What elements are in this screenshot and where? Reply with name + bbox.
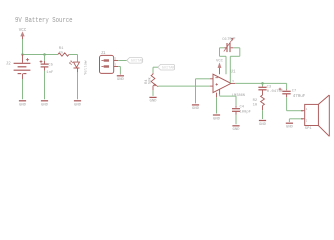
svg-text:C3: C3: [267, 85, 272, 89]
svg-text:100pF: 100pF: [240, 110, 252, 114]
svg-text:5: 5: [232, 80, 234, 83]
svg-text:C7: C7: [292, 89, 296, 93]
svg-text:10: 10: [253, 104, 258, 108]
svg-text:1nF: 1nF: [46, 71, 54, 75]
svg-text:GND: GND: [259, 123, 267, 127]
svg-text:R2: R2: [253, 99, 258, 103]
svg-text:GND: GND: [232, 128, 240, 132]
svg-text:2: 2: [306, 120, 308, 123]
svg-text:GND: GND: [117, 78, 125, 82]
svg-text:GND: GND: [19, 103, 27, 107]
svg-text:9V Battery Source: 9V Battery Source: [15, 17, 73, 25]
svg-text:U1: U1: [231, 71, 237, 75]
svg-text:Yellow: Yellow: [84, 60, 89, 75]
svg-text:1k: 1k: [59, 50, 64, 55]
svg-text:GND: GND: [213, 117, 221, 121]
svg-text:C6: C6: [222, 38, 226, 42]
svg-text:SP1: SP1: [305, 127, 313, 131]
svg-text:J2: J2: [6, 63, 11, 67]
svg-text:C4: C4: [240, 105, 245, 109]
svg-text:470uF: 470uF: [293, 95, 306, 99]
svg-text:GND: GND: [74, 103, 82, 107]
svg-text:0.047uF: 0.047uF: [267, 90, 284, 94]
svg-text:10uF: 10uF: [227, 37, 235, 41]
svg-text:GND: GND: [192, 107, 200, 111]
svg-text:GND: GND: [286, 126, 294, 130]
svg-text:1: 1: [306, 108, 308, 111]
svg-text:VCC: VCC: [216, 59, 224, 63]
svg-text:GND: GND: [149, 100, 157, 104]
svg-text:C5: C5: [48, 63, 53, 67]
svg-text:GND: GND: [41, 103, 49, 107]
svg-text:R4: R4: [145, 79, 149, 84]
svg-text:GUITAR: GUITAR: [131, 60, 145, 64]
svg-text:GUITAR: GUITAR: [162, 67, 176, 71]
